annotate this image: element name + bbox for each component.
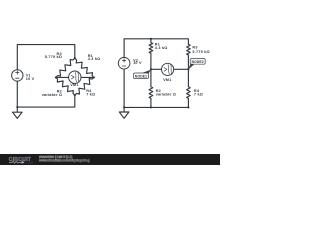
svg-text:VM1: VM1 [163, 78, 171, 82]
svg-text:10 V: 10 V [133, 61, 142, 65]
svg-text:5.779 kΩ: 5.779 kΩ [45, 55, 62, 59]
svg-text:variable Ω: variable Ω [156, 93, 176, 97]
svg-text:NODE2: NODE2 [192, 60, 204, 64]
svg-text:LAB: LAB [25, 161, 33, 165]
svg-text:5.779 kΩ: 5.779 kΩ [192, 50, 209, 54]
svg-text:7 kΩ: 7 kΩ [86, 92, 95, 96]
svg-text:VM1: VM1 [70, 83, 78, 87]
svg-text:4.3 kΩ: 4.3 kΩ [88, 57, 101, 61]
svg-text:variable Ω: variable Ω [42, 93, 62, 97]
svg-text:www.circuitlab.com/c6q3kqnhfog: www.circuitlab.com/c6q3kqnhfog [38, 159, 90, 163]
svg-text:7 kΩ: 7 kΩ [194, 93, 203, 97]
svg-text:10 V: 10 V [26, 77, 35, 81]
svg-text:4.3 kΩ: 4.3 kΩ [155, 46, 168, 50]
svg-text:R3: R3 [192, 45, 197, 49]
svg-text:NODE1: NODE1 [135, 75, 147, 79]
